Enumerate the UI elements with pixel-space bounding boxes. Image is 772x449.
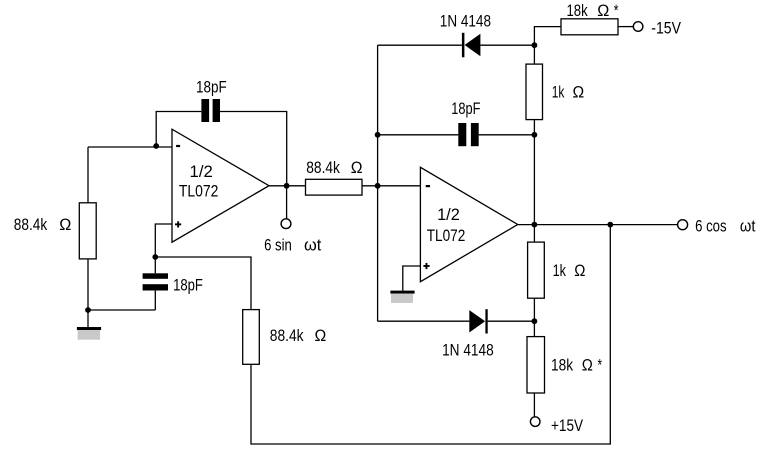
wire vertical net to D2 anode xyxy=(378,320,470,322)
label D2 1N 4148 xyxy=(442,340,494,359)
wire stem to 6sin terminal xyxy=(286,186,288,219)
wire top node to R4 xyxy=(534,27,561,46)
svg-text:TL072: TL072 xyxy=(179,181,219,200)
wire D1 anode to top node xyxy=(480,44,534,46)
svg-text:Ω: Ω xyxy=(582,355,593,374)
resistor R2 88.4k xyxy=(243,310,260,365)
wire R7 bottom to +15V terminal xyxy=(533,393,535,417)
label R3 unit ohm xyxy=(351,158,363,177)
node C3 left junction xyxy=(375,132,381,138)
label 6 cos omega-t xyxy=(740,216,756,235)
terminal 6 cos output xyxy=(678,220,688,230)
svg-text:-15V: -15V xyxy=(651,19,681,38)
svg-text:6 sin: 6 sin xyxy=(264,235,292,254)
wire R6 bottom to bottom node xyxy=(533,298,535,321)
terminal +15V xyxy=(530,417,540,427)
label R5 value 1k xyxy=(552,82,565,101)
label R3 value 88.4k xyxy=(306,158,340,177)
label R1 value 88.4k xyxy=(14,215,48,234)
label C2 18pF xyxy=(173,275,203,294)
svg-text:18pF: 18pF xyxy=(196,77,227,96)
node C2 top junction xyxy=(152,254,158,260)
label R4 value 18k xyxy=(567,1,589,20)
node U2 inverting junction xyxy=(375,183,381,189)
wire output node down to R6 xyxy=(533,225,535,243)
op-amp U1 xyxy=(172,129,269,242)
wire R5 bottom to C3 node xyxy=(533,120,535,135)
svg-text:18pF: 18pF xyxy=(173,275,203,294)
label R2 unit ohm xyxy=(315,326,327,345)
wire ground node to C2 bottom xyxy=(88,309,155,311)
svg-text:1N 4148: 1N 4148 xyxy=(440,11,491,30)
label U2 TL072 xyxy=(427,226,466,245)
wire R4 to -15V terminal xyxy=(618,26,633,28)
node U2 output junction xyxy=(532,222,538,228)
label U1 TL072 xyxy=(179,181,219,200)
node U1 inverting junction xyxy=(153,143,159,149)
wire bottom node to R7 xyxy=(533,321,535,336)
capacitor C3 18pF xyxy=(458,123,478,146)
label R6 value 1k xyxy=(553,261,567,280)
svg-text:TL072: TL072 xyxy=(427,226,466,245)
resistor R6 1k xyxy=(528,242,545,298)
svg-text:88.4k: 88.4k xyxy=(14,215,48,234)
wire junction to R2 top xyxy=(155,257,251,310)
wire C2 top plate to U1 non-inverting input xyxy=(155,224,171,273)
wire input node horizontal to U1 inverting input xyxy=(88,146,171,148)
op-amp U2 xyxy=(420,167,517,281)
svg-text:Ω: Ω xyxy=(315,326,327,345)
wire C3 node down to U2 output node xyxy=(533,135,535,225)
wire R2 bottom along page bottom up to output line xyxy=(251,225,610,444)
U2 inverting mark xyxy=(426,185,430,187)
svg-text:Ω: Ω xyxy=(574,261,585,280)
svg-text:6 cos: 6 cos xyxy=(695,216,727,235)
label R7 unit ohm xyxy=(582,355,593,374)
svg-text:1k: 1k xyxy=(552,82,565,101)
wire R3 to U2 inverting input xyxy=(362,185,420,187)
svg-text:Ω: Ω xyxy=(351,158,363,177)
svg-text:+15V: +15V xyxy=(551,416,584,435)
resistor R3 88.4k series xyxy=(306,179,363,195)
wire C3 left node to left plate xyxy=(378,134,459,136)
wire left vertical to R1 top xyxy=(87,147,89,203)
wire D2 cathode to bottom node xyxy=(488,320,535,322)
label R5 unit ohm xyxy=(573,82,585,101)
node top junction xyxy=(532,42,538,48)
label U1 1/2 xyxy=(190,162,213,181)
wire U2 non-inverting to ground xyxy=(403,266,421,291)
U1 non-inverting mark xyxy=(175,221,181,227)
svg-text:88.4k: 88.4k xyxy=(306,158,340,177)
capacitor C2 18pF xyxy=(143,273,168,290)
svg-text:Ω: Ω xyxy=(573,82,585,101)
label R4 unit ohm xyxy=(597,1,609,20)
node feedback tap junction xyxy=(607,222,613,228)
wire C3 right plate to vertical xyxy=(479,134,535,136)
resistor R7 18k xyxy=(527,337,545,393)
svg-text:88.4k: 88.4k xyxy=(270,326,304,345)
svg-text:Ω: Ω xyxy=(59,215,71,234)
label D1 1N 4148 xyxy=(440,11,491,30)
label R2 value 88.4k xyxy=(270,326,304,345)
svg-text:*: * xyxy=(614,1,619,20)
svg-text:18k: 18k xyxy=(567,1,589,20)
label +15V xyxy=(551,416,584,435)
svg-text:18pF: 18pF xyxy=(451,99,480,118)
wire feedback from inverting node up to C1 xyxy=(156,112,201,147)
label C3 18pF xyxy=(451,99,480,118)
diode D2 1N4148 xyxy=(469,309,487,333)
wire U2 output row to 6cos terminal xyxy=(518,224,678,226)
resistor R4 18k xyxy=(561,19,618,35)
svg-text:1k: 1k xyxy=(553,261,567,280)
diode D1 1N4148 xyxy=(462,33,481,58)
node bottom junction xyxy=(532,318,538,324)
wire C2 bottom plate to ground run xyxy=(154,291,156,310)
wire U1 output to R3 xyxy=(269,185,306,187)
terminal -15V xyxy=(633,22,643,32)
svg-text:ωt: ωt xyxy=(740,216,756,235)
label 6 sin omega-t xyxy=(304,235,322,254)
label U2 1/2 xyxy=(437,205,460,224)
svg-text:18k: 18k xyxy=(551,355,573,374)
label R1 unit ohm xyxy=(59,215,71,234)
svg-text:1/2: 1/2 xyxy=(437,205,460,224)
wire R1 bottom to ground node xyxy=(87,259,89,310)
wire top to D1 cathode xyxy=(378,44,462,46)
node ground-left junction xyxy=(85,307,91,313)
wire C1 right plate down to U1 output xyxy=(220,112,287,186)
node C3 right junction xyxy=(532,132,538,138)
resistor R5 1k xyxy=(526,64,543,120)
svg-text:*: * xyxy=(598,355,603,374)
label R7 value 18k xyxy=(551,355,573,374)
svg-text:1N 4148: 1N 4148 xyxy=(442,340,494,359)
label 6 sin wt xyxy=(264,235,292,254)
node U1 output junction xyxy=(284,183,290,189)
U1 inverting mark xyxy=(176,145,180,147)
wire long vertical net from D1 to D2 xyxy=(377,45,379,321)
wire top node down to R5 xyxy=(533,45,535,64)
label C1 18pF xyxy=(196,77,227,96)
svg-text:1/2: 1/2 xyxy=(190,162,213,181)
label R7 star xyxy=(598,355,603,374)
svg-text:ωt: ωt xyxy=(304,235,322,254)
label R4 star xyxy=(614,1,619,20)
label -15V xyxy=(651,19,681,38)
capacitor C1 18pF xyxy=(201,99,220,122)
label R6 unit ohm xyxy=(574,261,585,280)
label 6 cos xyxy=(695,216,727,235)
U2 non-inverting mark xyxy=(423,263,429,269)
ground G2 xyxy=(390,291,414,303)
resistor R1 88.4k xyxy=(79,203,96,259)
svg-text:Ω: Ω xyxy=(597,1,609,20)
ground G1 xyxy=(77,310,101,340)
terminal 6 sin output xyxy=(281,219,291,229)
